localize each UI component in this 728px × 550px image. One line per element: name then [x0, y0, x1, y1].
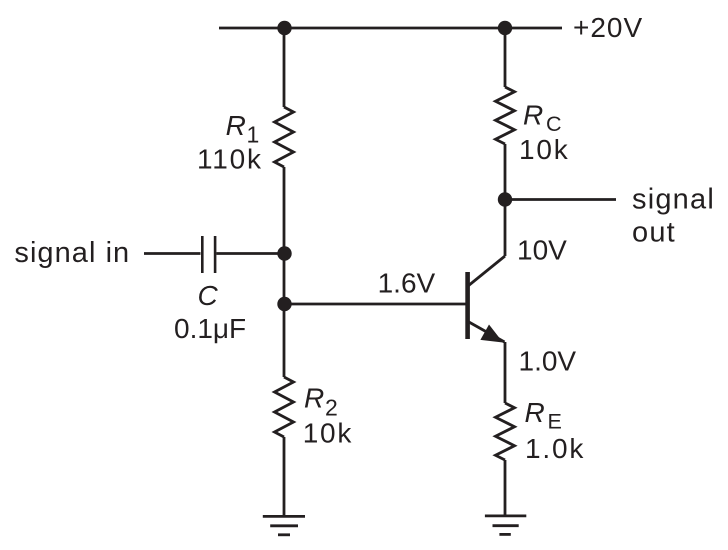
- svg-text:R: R: [226, 110, 246, 141]
- svg-text:110k: 110k: [197, 144, 263, 175]
- svg-text:E: E: [548, 409, 562, 433]
- svg-text:signal: signal: [632, 184, 715, 216]
- svg-text:R: R: [523, 99, 543, 130]
- svg-text:0.1μF: 0.1μF: [174, 313, 246, 344]
- svg-text:R: R: [525, 397, 545, 428]
- svg-text:R: R: [304, 383, 324, 414]
- svg-text:1.0V: 1.0V: [519, 345, 577, 376]
- svg-text:C: C: [546, 112, 562, 136]
- svg-text:signal in: signal in: [14, 237, 130, 269]
- svg-text:10k: 10k: [303, 418, 354, 449]
- svg-text:2: 2: [325, 395, 338, 421]
- svg-text:10V: 10V: [517, 234, 567, 265]
- svg-text:C: C: [198, 280, 219, 311]
- svg-text:10k: 10k: [519, 134, 570, 165]
- svg-text:1.6V: 1.6V: [378, 267, 436, 298]
- svg-text:1.0k: 1.0k: [525, 433, 585, 464]
- svg-text:+20V: +20V: [573, 12, 643, 43]
- svg-text:out: out: [632, 216, 676, 248]
